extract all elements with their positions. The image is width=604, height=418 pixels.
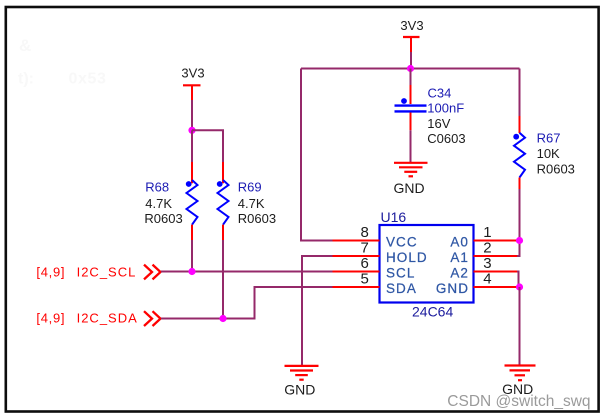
wire HOLD to ground [302, 256, 333, 365]
svg-text:100nF: 100nF [427, 100, 464, 115]
ground GND (right) [502, 366, 535, 398]
pin 6 SCL [333, 271, 380, 273]
svg-text:5: 5 [360, 271, 368, 288]
svg-text:U16: U16 [381, 209, 407, 225]
svg-text:[4,9]: [4,9] [36, 310, 65, 325]
svg-text:GND: GND [393, 180, 424, 196]
power symbol 3V3 (top) [400, 18, 423, 52]
resistor R69 [217, 162, 229, 240]
svg-text:[4,9]: [4,9] [36, 264, 65, 279]
svg-text:&: & [19, 36, 31, 55]
junction 3V3 split [188, 127, 195, 134]
svg-text:CSDN @switch_swq: CSDN @switch_swq [447, 393, 590, 410]
svg-text:A2: A2 [450, 266, 469, 281]
wire I2C_SDA elbow to pin 5 [161, 287, 333, 319]
IC U16 body [380, 225, 474, 303]
svg-text:0x53: 0x53 [69, 71, 107, 88]
wire R68 to SCL [191, 240, 193, 272]
svg-text:A1: A1 [450, 250, 469, 265]
svg-text:8: 8 [360, 224, 368, 241]
pin 7 HOLD [333, 255, 380, 257]
svg-text:R0603: R0603 [144, 211, 182, 226]
pin 8 VCC [333, 240, 380, 242]
pin 1 A0 [474, 240, 518, 242]
svg-text:4.7K: 4.7K [145, 196, 172, 211]
svg-text:3V3: 3V3 [181, 66, 204, 81]
port I2C_SDA [36, 310, 160, 326]
capacitor C34 [395, 69, 427, 131]
svg-text:2: 2 [483, 240, 491, 257]
pin 3 A2 [474, 271, 518, 273]
wire 3V3 stem [410, 52, 412, 69]
resistor R69 labels [238, 179, 276, 226]
wire R69 to SDA [222, 240, 224, 319]
svg-text:R67: R67 [537, 130, 561, 145]
svg-text:3: 3 [483, 255, 491, 272]
wire split to R68 [191, 130, 193, 162]
svg-text:16V: 16V [427, 116, 450, 131]
svg-text:I2C_SDA: I2C_SDA [77, 310, 138, 325]
svg-text:4.7K: 4.7K [238, 196, 265, 211]
junction R69 / SDA [219, 315, 226, 322]
svg-text:10K: 10K [537, 146, 560, 161]
svg-text:R0603: R0603 [238, 211, 276, 226]
junction R68 / SCL [188, 268, 195, 275]
wire pin 4 to ground [519, 287, 521, 365]
svg-text:SCL: SCL [386, 266, 415, 281]
wire R67 to pins 1-2 [519, 189, 521, 241]
capacitor C34 labels [427, 85, 465, 146]
wire split to R69 [192, 130, 223, 162]
svg-text:7: 7 [360, 240, 368, 257]
wire pin2 up to pin1 junction [517, 241, 520, 257]
svg-text:C34: C34 [428, 85, 452, 100]
svg-text:t):: t): [18, 71, 34, 88]
svg-text:4: 4 [483, 271, 491, 288]
wire pin3 down to pin4 junction [517, 272, 519, 288]
wire 3V3 rail (horizontal) [301, 68, 520, 70]
svg-text:GND: GND [284, 381, 315, 397]
pin 5 SDA [333, 286, 380, 288]
svg-text:VCC: VCC [386, 235, 418, 250]
svg-text:A0: A0 [450, 235, 469, 250]
svg-text:HOLD: HOLD [386, 250, 428, 265]
svg-text:C0603: C0603 [427, 131, 465, 146]
junction 3V3 rail / C34 [407, 65, 414, 72]
pin 2 A1 [474, 255, 518, 257]
wire rail right drop to R67 [519, 69, 521, 117]
power symbol 3V3 (left) [181, 66, 204, 100]
wire C34 to ground [410, 130, 412, 162]
svg-text:1: 1 [483, 224, 491, 241]
svg-text:3V3: 3V3 [400, 18, 423, 33]
resistor R68 labels [144, 179, 182, 226]
svg-text:SDA: SDA [386, 281, 417, 296]
wire I2C_SCL to pin 6 [161, 271, 333, 273]
resistor R68 [186, 162, 198, 240]
svg-text:GND: GND [436, 281, 469, 296]
resistor R67 [513, 116, 525, 189]
pin 4 GND [474, 286, 518, 288]
svg-text:I2C_SCL: I2C_SCL [77, 264, 137, 279]
junction pin 4 / ground [516, 283, 523, 290]
svg-text:6: 6 [360, 255, 368, 272]
port I2C_SCL [36, 264, 160, 279]
junction pins 1-2 / R67 [516, 237, 523, 244]
svg-text:R0603: R0603 [537, 161, 575, 176]
svg-text:R69: R69 [238, 179, 262, 194]
resistor R67 labels [537, 130, 575, 176]
ground GND (left) [284, 366, 318, 398]
wire rail left drop to VCC pin [301, 69, 333, 241]
ground GND (under C34) [393, 163, 427, 196]
wire 3V3 left stem [191, 100, 193, 130]
svg-text:24C64: 24C64 [412, 304, 453, 320]
svg-text:R68: R68 [145, 179, 169, 194]
